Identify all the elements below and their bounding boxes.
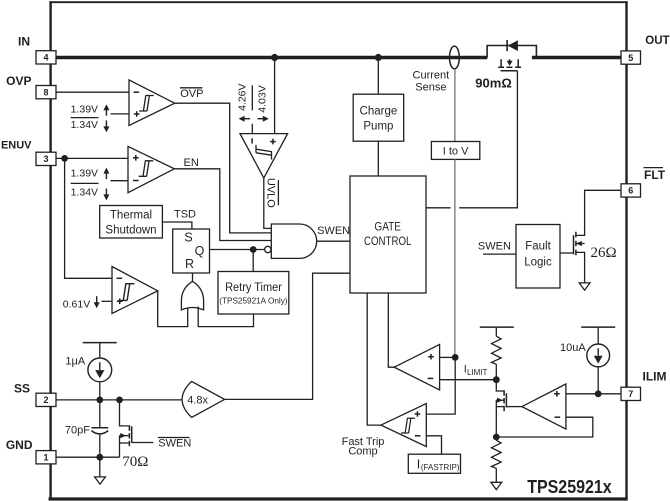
amplifier 4.8x: [182, 381, 225, 417]
pin 3 ENUV: [1, 139, 56, 165]
ground ILIM divider: [491, 482, 502, 489]
svg-text:S: S: [184, 230, 192, 244]
wire UVLO comparator to AND gate: [264, 178, 272, 228]
label 4.26V/4.03V UVLO thresholds: [236, 83, 268, 121]
wire I to V down to ILIMIT junction (gray): [454, 159, 456, 357]
svg-text:SS: SS: [14, 381, 30, 395]
node OVP output label: [180, 88, 203, 100]
gate AND (SWEN): [265, 224, 317, 258]
supply bar for 10uA source: [581, 326, 615, 328]
wire 0.61V ref stub: [102, 300, 113, 302]
comparator EN (ENUV): [128, 146, 174, 192]
box Retry Timer: [218, 272, 289, 315]
wire UVLO ref divider and stub: [251, 85, 253, 133]
node ENUV junction: [61, 155, 68, 162]
svg-text:I to V: I to V: [443, 146, 469, 158]
svg-text:2: 2: [43, 395, 48, 405]
svg-text:70pF: 70pF: [65, 424, 90, 436]
box Thermal Shutdown: [100, 206, 163, 239]
svg-text:Sense: Sense: [415, 81, 446, 93]
wire latch Q to AND bubble: [210, 249, 265, 251]
svg-text:4.8x: 4.8x: [187, 395, 208, 407]
comparator UVLO (points down): [240, 134, 288, 178]
svg-text:EN: EN: [184, 157, 199, 169]
pin 2 SS: [14, 381, 56, 406]
transistor SS discharge FET 70ohm: [120, 400, 154, 457]
svg-text:(FASTRIP): (FASTRIP): [421, 463, 460, 472]
svg-text:Q: Q: [195, 244, 205, 258]
box I to V: [431, 142, 479, 160]
svg-text:GATE: GATE: [374, 221, 401, 233]
node IN bus tap for UVLO: [271, 54, 278, 61]
box GATE CONTROL: [350, 176, 426, 293]
svg-text:1.39V: 1.39V: [71, 167, 98, 179]
svg-text:TSD: TSD: [174, 209, 196, 221]
svg-text:UVLO: UVLO: [265, 178, 277, 208]
wire SWEN to Fault Logic: [483, 253, 516, 255]
amplifier current limit error amp: [394, 344, 439, 390]
svg-text:LIMIT: LIMIT: [467, 368, 488, 377]
pin 5 OUT: [621, 35, 670, 64]
label ILIMIT: [464, 363, 488, 377]
wire pin3 to EN comparator plus: [56, 157, 128, 159]
label Current Sense: [413, 70, 450, 94]
box IFASTRIP reference: [408, 454, 460, 473]
svg-text:1: 1: [43, 453, 48, 463]
svg-text:8: 8: [43, 87, 48, 97]
latch SR: [173, 229, 210, 273]
comparator Fast Trip: [381, 404, 426, 447]
pin 7 ILIM: [621, 370, 667, 401]
resistor ILIM lower: [492, 440, 502, 482]
wire fast trip minus to IFASTRIP box: [426, 436, 441, 454]
amplifier ILIM servo: [522, 384, 566, 429]
wire IN bus to UVLO plus: [274, 59, 276, 134]
svg-text:1.39V: 1.39V: [71, 103, 98, 115]
transistor main power FET: [487, 40, 536, 71]
svg-text:Logic: Logic: [524, 256, 552, 268]
wire IN bus: [56, 56, 621, 59]
wire error amp plus to sense line: [440, 356, 456, 358]
label 1.39V/1.34V EN thresholds: [71, 167, 110, 200]
resistor ILIM upper: [492, 327, 502, 380]
svg-text:Pump: Pump: [363, 120, 393, 132]
svg-text:26Ω: 26Ω: [591, 245, 617, 261]
svg-text:Retry Timer: Retry Timer: [225, 282, 282, 294]
wire servo plus to pin7: [566, 393, 621, 395]
svg-text:SWEN: SWEN: [158, 437, 191, 449]
wire pin6 to FLT FET drain: [576, 190, 621, 235]
wire error amp minus to ILIMIT node: [440, 379, 496, 381]
svg-text:70Ω: 70Ω: [122, 454, 148, 470]
wire EN ref stub: [111, 180, 129, 182]
wire OVP ref stub: [111, 113, 130, 115]
svg-text:ENUV: ENUV: [1, 139, 32, 151]
svg-text:Shutdown: Shutdown: [105, 224, 156, 236]
label SWEN input to Fault Logic: [478, 241, 511, 253]
svg-text:3: 3: [43, 154, 48, 164]
svg-text:90mΩ: 90mΩ: [475, 76, 511, 91]
svg-text:10uA: 10uA: [560, 342, 586, 354]
svg-text:7: 7: [628, 389, 633, 399]
node SS junction at discharge FET: [116, 397, 123, 404]
ground FLT FET: [579, 283, 590, 290]
label SWEN at discharge FET gate: [158, 437, 191, 449]
svg-text:5: 5: [628, 53, 633, 63]
wire TSD to latch S input: [162, 222, 192, 229]
svg-text:4.03V: 4.03V: [256, 85, 268, 112]
svg-text:1μA: 1μA: [65, 355, 85, 367]
svg-text:SWEN: SWEN: [317, 225, 350, 237]
label Fast Trip Comp: [342, 436, 385, 458]
transistor FLT pulldown FET 26ohm: [560, 232, 585, 283]
box Fault Logic: [516, 225, 560, 289]
current source 1uA: [88, 343, 112, 400]
wire current sense to I to V (gray): [454, 69, 456, 142]
wire OR output to latch R: [192, 273, 194, 281]
svg-text:4: 4: [43, 53, 48, 63]
svg-text:1.34V: 1.34V: [71, 119, 98, 131]
svg-text:TPS25921x: TPS25921x: [527, 476, 612, 497]
svg-text:(TPS25921A Only): (TPS25921A Only): [219, 296, 288, 305]
pin 6 FLT: [621, 168, 666, 198]
wire fast trip output to GATE CONTROL: [367, 293, 381, 425]
pin 4 IN: [18, 35, 56, 65]
wire error amp output to GATE CONTROL: [388, 293, 394, 367]
svg-text:SWEN: SWEN: [478, 241, 511, 253]
supply bar for 1uA source: [83, 342, 117, 344]
svg-text:OUT: OUT: [645, 35, 669, 47]
wire OVP comparator to AND gate: [175, 103, 272, 233]
wire pin8 to OVP comparator minus: [56, 91, 129, 93]
svg-text:Current: Current: [413, 70, 450, 82]
pin 8 OVP: [6, 74, 56, 99]
svg-text:ILIM: ILIM: [643, 370, 667, 384]
node pin7 junction: [595, 390, 602, 397]
node SS junction at current source: [96, 397, 103, 404]
wire Retry Timer output to OR gate: [198, 307, 253, 327]
current source 10uA: [587, 327, 610, 394]
svg-text:CONTROL: CONTROL: [364, 236, 412, 248]
node ILIMIT junction: [493, 376, 500, 383]
current sense ellipse on bus: [450, 46, 460, 69]
pin 1 GND: [6, 438, 56, 464]
wire Charge Pump to GATE CONTROL: [377, 141, 379, 176]
wire SS pin to 4.8x amp: [56, 399, 184, 401]
label 1.39V/1.34V OVP thresholds: [71, 103, 110, 132]
wire Q junction to Retry Timer: [252, 250, 254, 272]
svg-text:1.34V: 1.34V: [71, 186, 98, 198]
capacitor 70pF: [91, 400, 108, 457]
node Q junction: [250, 246, 257, 253]
node IN bus tap for charge pump: [375, 54, 382, 61]
wire servo minus feedback: [496, 417, 593, 437]
svg-text:OVP: OVP: [6, 74, 31, 88]
gate OR (retry/reset): [181, 281, 203, 310]
wire ENUV junction down to 0.61V comparator minus: [65, 158, 112, 278]
node ILIM FET source junction: [493, 434, 500, 441]
svg-text:Fault: Fault: [525, 240, 551, 252]
svg-text:GND: GND: [6, 438, 33, 452]
comparator OVP: [129, 80, 175, 126]
wire 0.61V comparator output to OR gate: [158, 291, 188, 327]
svg-text:OVP: OVP: [180, 88, 203, 100]
transistor ILIM setting FET: [496, 380, 522, 437]
svg-text:0.61V: 0.61V: [63, 299, 90, 311]
node GND junction: [96, 454, 103, 461]
comparator 0.61V SS: [112, 267, 158, 314]
svg-text:R: R: [185, 257, 194, 271]
svg-text:Charge: Charge: [360, 105, 398, 117]
ground GND pin: [95, 457, 106, 484]
svg-text:Thermal: Thermal: [110, 210, 152, 222]
supply bar for ILIM divider: [480, 326, 514, 328]
wire AND output to GATE CONTROL: [317, 240, 350, 242]
wire GND pin to discharge FET source: [56, 456, 120, 458]
wire bus to Charge Pump: [377, 59, 379, 94]
svg-text:I: I: [417, 457, 420, 471]
svg-text:IN: IN: [18, 35, 30, 49]
wire power FET gate to GATE CONTROL: [426, 71, 517, 208]
wire EN comparator to AND gate: [174, 169, 271, 241]
svg-text:Comp: Comp: [348, 446, 377, 458]
svg-text:6: 6: [628, 186, 633, 196]
box Charge Pump: [353, 94, 404, 141]
node sense junction: [452, 354, 459, 361]
svg-text:FLT: FLT: [644, 168, 666, 182]
wire 4.8x output to GATE CONTROL: [225, 273, 350, 399]
node UVLO output label (rotated): [265, 178, 279, 208]
wire sense junction down to fast trip plus: [426, 357, 455, 414]
svg-text:4.26V: 4.26V: [236, 83, 248, 110]
label 0.61V threshold: [63, 296, 100, 310]
